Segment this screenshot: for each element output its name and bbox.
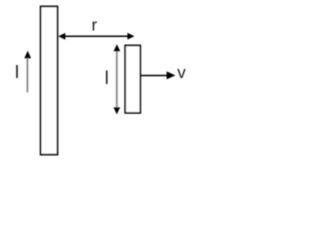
current arrow I (upward, left of wire)	[26, 58, 28, 93]
wire W1 (long straight conductor, tall rectangle)	[41, 6, 58, 154]
svg-text:l: l	[105, 68, 109, 88]
rod (small rectangle)	[125, 45, 140, 113]
svg-text:r: r	[92, 15, 98, 34]
velocity arrow v (rightward, from rod)	[141, 75, 169, 77]
dimension arrow l (double-headed, rod length)	[116, 50, 118, 108]
svg-text:v: v	[177, 63, 186, 82]
svg-text:I: I	[15, 62, 20, 82]
dimension arrow r (double-headed, wire to rod)	[63, 35, 130, 37]
